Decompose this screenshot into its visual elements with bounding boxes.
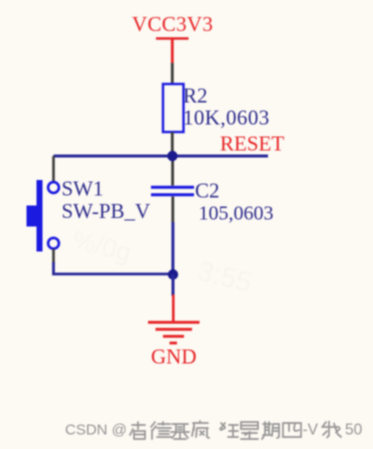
svg-text:50: 50 [345,422,363,439]
svg-text:SW1: SW1 [62,177,104,201]
glyph kěn [130,422,145,439]
glyph fēng [192,421,209,438]
faint ghost watermark lower [195,255,255,298]
wire R2 to node RESET [171,132,174,156]
watermark CSDN text [65,422,363,439]
glyph sì [283,423,301,437]
svg-text:C2: C2 [195,179,220,203]
switch SW1 [27,180,59,252]
wire SW1 pin 2 to GND node [54,262,174,274]
switch SW1 pin 2 lead [52,249,55,263]
svg-text:GND: GND [151,345,197,369]
svg-text:-V: -V [303,422,319,439]
resistor R2 [163,84,184,132]
svg-text:RESET: RESET [220,132,284,156]
wire C2 to GND node [171,197,174,223]
svg-text:VCC3V3: VCC3V3 [132,12,213,36]
svg-text:10K,0603: 10K,0603 [183,106,270,130]
svg-text:R2: R2 [183,84,208,108]
glyph dé [151,422,171,439]
wire RESET to switch SW1 pin 1 [52,156,55,181]
junction GND node [168,269,178,279]
glyph wǒ [322,422,341,438]
svg-text:105,0603: 105,0603 [199,203,274,225]
wire VCC3V3 to resistor R2 [171,63,174,84]
faint ghost watermark upper [70,224,135,267]
svg-text:CSDN @: CSDN @ [65,422,127,439]
wire RESET net horizontal [54,155,269,158]
svg-text:SW-PB_V: SW-PB_V [62,199,151,223]
svg-text:%/0g: %/0g [70,224,135,267]
wire RESET node to capacitor C2 [171,156,174,186]
glyph qī [262,422,279,439]
glyph kuáng [220,423,238,437]
glyph xīng [241,422,258,439]
capacitor C2 [151,187,194,194]
wire C2 pin to GND junction [171,222,174,274]
watermark CJK glyphs [130,421,341,439]
junction node RESET [167,151,177,161]
glyph jī [171,424,189,439]
ground symbol GND [148,295,200,344]
power symbol VCC3V3 [156,39,189,64]
wire GND node to ground symbol [172,275,175,297]
svg-text:3:55: 3:55 [195,255,255,298]
